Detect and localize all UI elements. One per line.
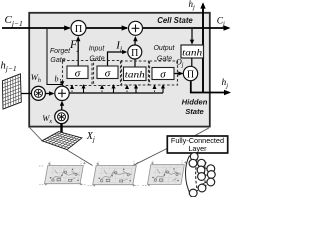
main sum node <box>55 86 69 100</box>
LSTM cell outer box <box>29 13 210 127</box>
wire mesh to conv <box>21 93 31 95</box>
svg-text:tanh: tanh <box>125 70 146 80</box>
forget gate dashed box <box>63 61 93 86</box>
tanh dashed box <box>121 61 149 85</box>
svg-text:Input: Input <box>89 45 106 52</box>
wire riser into output gate <box>153 84 166 93</box>
svg-text:Gate: Gate <box>89 55 104 62</box>
tanh block right <box>181 45 204 58</box>
tanh block center <box>124 67 147 81</box>
svg-text:Π: Π <box>187 69 194 80</box>
svg-text:σ: σ <box>105 68 111 80</box>
wire conv2 to sum arrow <box>60 101 64 110</box>
wire box corner to FC box <box>195 128 209 136</box>
node h_{j-1} label <box>1 61 17 74</box>
wire bias b path into sum <box>47 29 64 86</box>
wire riser into tanh <box>125 84 138 93</box>
X_j input mesh <box>42 132 82 150</box>
wire mesh to board2 <box>67 150 93 166</box>
wire h_j output (down and right) <box>191 80 231 95</box>
sigma block 3 (output) <box>152 68 174 81</box>
fully-connected network sketch <box>185 153 215 197</box>
node F_j label <box>69 39 79 52</box>
label Forget Gate <box>50 48 71 64</box>
svg-text:Cell State: Cell State <box>157 16 193 25</box>
svg-text:Output: Output <box>153 45 175 52</box>
sum node on cell line <box>129 21 143 35</box>
svg-text:Forget: Forget <box>50 48 71 55</box>
output gate dashed box <box>150 61 178 85</box>
label Input Gate <box>89 45 106 62</box>
svg-text:b: b <box>55 75 59 84</box>
wire sigma3 to product arrow <box>174 71 183 75</box>
svg-text:tanh: tanh <box>182 48 203 58</box>
wire box corner to mesh <box>30 128 43 141</box>
h_{j-1} input mesh <box>2 74 21 109</box>
board image 3 <box>142 160 186 186</box>
board image 2 <box>88 161 139 187</box>
node C_j label <box>217 17 225 28</box>
board image 1 <box>39 161 86 186</box>
wire I_j sigma2 to product2 <box>108 50 128 66</box>
wire F_j sigma1 to product1 <box>76 36 80 66</box>
wire conv to sum arrow <box>46 91 55 96</box>
svg-text:Π: Π <box>75 24 83 35</box>
svg-text:σ: σ <box>160 68 166 80</box>
wire h_j up line <box>200 2 205 92</box>
input gate dashed box <box>94 61 122 86</box>
wire product2 to sum arrow <box>133 36 137 45</box>
conv op W_x (circled asterisk) <box>55 110 69 124</box>
sigma block 2 (input) <box>97 66 118 80</box>
label Cell State <box>157 16 193 25</box>
wire riser into forget gate <box>70 84 86 93</box>
wire riser into input gate <box>100 84 116 93</box>
wire FC box to board2 <box>133 148 169 166</box>
svg-text:Π: Π <box>131 48 138 59</box>
wire tanh to product <box>191 58 193 67</box>
product node 2 (input multiply) <box>128 45 142 59</box>
wire X stem <box>60 123 62 136</box>
node b label <box>55 75 59 84</box>
wire tanh-center to product2 <box>134 59 136 66</box>
wire cell-state line C <box>2 25 231 31</box>
product node 1 (forget multiply) <box>71 21 86 36</box>
wire bus from sum to gates <box>69 92 163 94</box>
op-amp product node (output multiply) <box>183 66 197 80</box>
node h_j top label <box>189 0 196 11</box>
svg-text:Hidden: Hidden <box>182 97 208 106</box>
svg-text:σ: σ <box>75 68 81 80</box>
node I_j label <box>115 39 122 52</box>
node h_j right label <box>222 78 229 89</box>
svg-text:Layer: Layer <box>188 144 207 153</box>
Fully-Connected Layer box <box>167 136 227 153</box>
wire C to tanh down arrow <box>190 29 194 45</box>
node O_j label <box>176 57 184 68</box>
svg-text:State: State <box>185 107 204 116</box>
node W_x label <box>42 113 52 125</box>
node W_h label <box>31 72 41 84</box>
label Hidden State <box>182 97 208 115</box>
conv op W_h (circled asterisk) <box>31 86 45 100</box>
label Output Gate <box>153 45 175 62</box>
sigma block 1 (forget) <box>67 66 88 80</box>
wire b dashed stub <box>60 79 62 84</box>
node C_{j-1} label <box>5 14 23 28</box>
node X_j label <box>86 131 95 143</box>
